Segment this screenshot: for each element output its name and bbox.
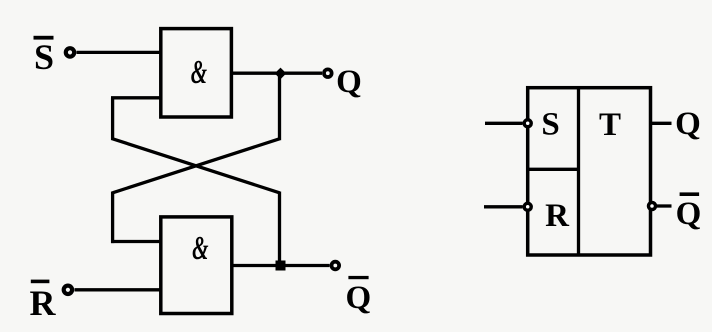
svg-text:S: S [34, 37, 54, 77]
wire feedback: vertical down to Qbar junction [278, 192, 281, 266]
svg-text:R: R [30, 283, 57, 323]
wire feedback: vertical from Q junction down [278, 73, 281, 140]
wire Qbar output [657, 204, 672, 207]
wire feedback: horizontal into gate U2 second input [111, 240, 161, 243]
wire feedback: vertical down to U2 input level [111, 192, 114, 244]
svg-text:Q: Q [345, 280, 371, 316]
U3 divider horizontal between S and R cells [528, 168, 579, 171]
svg-text:S: S [541, 107, 559, 143]
wire feedback: diagonal Q node to lower-left [113, 139, 280, 193]
wire Q output [651, 122, 672, 125]
terminal Q (output pin circle) [324, 69, 332, 77]
wire R input [484, 205, 523, 208]
terminal R (input pin circle) [64, 286, 72, 294]
svg-text:Q: Q [676, 196, 702, 232]
gate U1 NAND body [161, 29, 232, 117]
wire U2 output to Qbar terminal [231, 264, 330, 267]
wire feedback: diagonal from lower-right node up [113, 139, 280, 193]
wire U1 output to Q terminal [231, 72, 322, 75]
svg-text:Q: Q [336, 64, 362, 100]
terminal Qbar (output pin circle) [332, 262, 340, 270]
svg-text:R: R [545, 198, 570, 234]
inversion bubble at S input [524, 120, 531, 127]
svg-text:&: & [192, 230, 208, 267]
wire S to gate U1 [77, 51, 162, 54]
svg-text:&: & [191, 54, 207, 91]
wire R to gate U2 [75, 288, 162, 291]
U3 divider vertical (control block separator) [577, 88, 580, 255]
inversion bubble at Qbar output [649, 203, 656, 210]
wire S input [485, 122, 523, 125]
gate U2 NAND body [161, 217, 232, 314]
svg-text:Q: Q [675, 106, 701, 142]
label Q-bar (bottom output) [345, 276, 371, 316]
label Q-bar (right bottom output) [676, 192, 702, 232]
inversion bubble at R input [524, 203, 531, 210]
U3 outer body [528, 88, 651, 255]
terminal S (input pin circle) [66, 48, 74, 56]
svg-text:T: T [599, 107, 621, 143]
label S-bar (input S negated) [34, 36, 55, 77]
junction node at Q (diamond dot) [275, 68, 287, 80]
junction node at Qbar (square dot) [276, 261, 286, 271]
wire feedback: horizontal into gate U1 second input [111, 96, 161, 99]
label R-bar (input R negated) [30, 280, 57, 323]
wire feedback: vertical from U1 input down [111, 98, 114, 140]
